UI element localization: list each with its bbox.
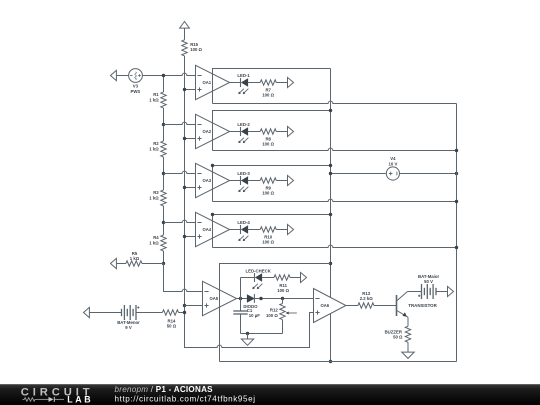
CircuitLab logo bbox=[21, 386, 94, 404]
ground buzzer bbox=[402, 352, 414, 358]
svg-text:R4: R4 bbox=[153, 235, 159, 240]
svg-text:100 Ω: 100 Ω bbox=[262, 191, 274, 196]
svg-text:OA4: OA4 bbox=[202, 227, 211, 232]
wire bus to OA3 non-inverting input bbox=[185, 187, 196, 189]
node terminal check (flag right) bbox=[301, 272, 307, 282]
junction bus OA4 plus bbox=[183, 235, 186, 238]
svg-text:TRANSISTOR: TRANSISTOR bbox=[408, 303, 437, 308]
wire box 3 outline bbox=[213, 166, 331, 202]
junction box3 top-left bbox=[211, 164, 214, 167]
wire LED-3 to R9 bbox=[248, 180, 260, 182]
wire box 4 outline bbox=[213, 215, 331, 248]
wire main bus from R15 down and jog to OA6 plus input bbox=[185, 56, 314, 348]
svg-text:1 kΩ: 1 kΩ bbox=[149, 195, 159, 200]
op-amp OA6 bbox=[314, 289, 346, 323]
junction chain R2-R3 bbox=[162, 172, 165, 175]
resistor BUZZER bbox=[385, 326, 411, 342]
wire OA3 output to LED-3 bbox=[230, 180, 241, 182]
svg-text:LED-CHECK: LED-CHECK bbox=[246, 269, 272, 274]
wire OA5 output bbox=[237, 298, 248, 300]
op-amp OA4 bbox=[196, 212, 230, 246]
svg-text:100 Ω: 100 Ω bbox=[277, 288, 289, 293]
node terminal R5 (flag left) bbox=[111, 258, 126, 268]
op-amp OA5 bbox=[203, 281, 237, 315]
svg-text:LED-4: LED-4 bbox=[237, 220, 250, 225]
wire secondary bus bbox=[330, 69, 332, 362]
svg-text:1 kΩ: 1 kΩ bbox=[130, 256, 140, 261]
wire bus2 to V4 bbox=[331, 173, 386, 175]
svg-text:OA6: OA6 bbox=[320, 303, 329, 308]
footer bar bbox=[0, 384, 540, 405]
wire OA4 output to LED-4 bbox=[230, 229, 241, 231]
svg-text:2.2 kΩ: 2.2 kΩ bbox=[360, 296, 374, 301]
svg-text:100 Ω: 100 Ω bbox=[262, 93, 274, 98]
voltage source V3 PWS bbox=[129, 69, 143, 94]
wire OA6 output to R13 bbox=[346, 305, 358, 307]
junction ground check bbox=[246, 332, 249, 335]
svg-text:OA1: OA1 bbox=[202, 80, 211, 85]
svg-text:100 Ω: 100 Ω bbox=[266, 313, 278, 318]
node terminal battery (flag left) bbox=[84, 307, 122, 317]
capacitor C1 bbox=[233, 299, 260, 334]
svg-text:R3: R3 bbox=[153, 190, 159, 195]
wire R8 to terminal bbox=[276, 131, 287, 133]
wire bus to OA1 non-inverting input bbox=[185, 89, 196, 91]
junction chain top bbox=[162, 74, 165, 77]
junction bus2 box3 top bbox=[329, 164, 332, 167]
junction bus2 check box top bbox=[329, 262, 332, 265]
LED LED-CHECK bbox=[246, 269, 272, 290]
wire OA5 output up to LED-CHECK bbox=[240, 278, 242, 299]
wire LED-4 to R10 bbox=[248, 229, 260, 231]
footer title text bbox=[115, 385, 256, 404]
wire R5 to chain bbox=[142, 263, 164, 265]
wire right bus bbox=[456, 104, 458, 362]
wire check box outline bbox=[220, 264, 331, 362]
svg-text:9 V: 9 V bbox=[125, 325, 132, 330]
junction after DIODO bbox=[259, 297, 262, 300]
svg-text:OA5: OA5 bbox=[209, 296, 218, 301]
wire box 1 bottom rail to right bus bbox=[213, 101, 457, 103]
wire to LED-CHECK bbox=[241, 277, 255, 279]
svg-text:brenopm / P1 - ACIONAS: brenopm / P1 - ACIONAS bbox=[115, 385, 214, 394]
wire divider to OA2 inverting input bbox=[164, 122, 196, 124]
resistor R9 bbox=[260, 178, 276, 196]
wire collector to battery bbox=[408, 291, 422, 293]
wire LED-CHECK to R11 bbox=[262, 277, 274, 279]
wire R13 to transistor base bbox=[374, 305, 397, 307]
wire box 4 bottom rail to right bus bbox=[213, 245, 457, 247]
svg-text:LED-1: LED-1 bbox=[237, 73, 250, 78]
wire box 2 outline bbox=[213, 111, 331, 151]
junction bus OA5 plus bbox=[183, 304, 186, 307]
node terminal box 3 (flag right) bbox=[288, 175, 294, 185]
wire R10 to terminal bbox=[276, 229, 287, 231]
wire OA1 output to LED-1 bbox=[230, 82, 241, 84]
wire LED-2 to R8 bbox=[248, 131, 260, 133]
svg-text:50 Ω: 50 Ω bbox=[393, 335, 403, 340]
resistor R15 bbox=[182, 40, 203, 56]
svg-text:50 V: 50 V bbox=[424, 279, 433, 284]
junction V4 right bbox=[455, 172, 458, 175]
svg-text:1 kΩ: 1 kΩ bbox=[149, 240, 159, 245]
wire LED-1 to R7 bbox=[248, 82, 260, 84]
svg-text:PWS: PWS bbox=[131, 89, 141, 94]
resistor R8 bbox=[260, 129, 276, 147]
wire R9 to terminal bbox=[276, 180, 287, 182]
svg-text:LAB: LAB bbox=[67, 395, 93, 405]
resistor R1 bbox=[149, 76, 166, 125]
junction bus2 box4 top bbox=[329, 213, 332, 216]
node terminal box 4 (flag right) bbox=[288, 224, 294, 234]
wire V4 to right bus bbox=[400, 173, 457, 175]
battery BAT-Maior bbox=[418, 274, 440, 299]
resistor R14 bbox=[162, 310, 178, 329]
node terminal BAT-Maior (flag right) bbox=[448, 286, 454, 296]
junction bus OA3 plus bbox=[183, 186, 186, 189]
wire bus to OA2 non-inverting input bbox=[185, 138, 196, 140]
wire box 2 bottom rail to right bus bbox=[213, 148, 457, 150]
junction V4 left bbox=[329, 172, 332, 175]
junction R12 top bbox=[281, 297, 284, 300]
svg-text:LED-3: LED-3 bbox=[237, 171, 250, 176]
resistor R12 bbox=[266, 299, 297, 334]
LED LED-2 bbox=[237, 122, 250, 143]
svg-text:OA3: OA3 bbox=[202, 178, 211, 183]
LED LED-1 bbox=[237, 73, 250, 94]
junction box4 top-left bbox=[211, 213, 214, 216]
wire DIODO to OA6 inverting input bbox=[254, 298, 313, 300]
op-amp OA1 bbox=[196, 65, 230, 99]
LED LED-4 bbox=[237, 220, 250, 241]
wire divider to OA3 inverting input bbox=[164, 171, 196, 173]
resistor R13 bbox=[358, 291, 374, 308]
svg-text:10 V: 10 V bbox=[388, 162, 397, 167]
wire bus to OA5 non-inverting input bbox=[185, 305, 203, 307]
svg-text:100 Ω: 100 Ω bbox=[262, 142, 274, 147]
battery BAT-Menor bbox=[117, 305, 140, 330]
resistor R5 bbox=[126, 251, 142, 266]
transistor TRANSISTOR bbox=[397, 292, 438, 317]
resistor R10 bbox=[260, 227, 276, 245]
junction chain R5 row bbox=[162, 262, 165, 265]
svg-text:100 Ω: 100 Ω bbox=[262, 240, 274, 245]
wire divider to OA4 inverting input bbox=[164, 220, 196, 222]
svg-text:OA2: OA2 bbox=[202, 129, 211, 134]
junction bus2 bottom bbox=[329, 360, 332, 363]
svg-text:R2: R2 bbox=[153, 141, 159, 146]
wire R11 to terminal bbox=[290, 277, 300, 279]
wire R7 to terminal bbox=[276, 82, 287, 84]
svg-text:http://circuitlab.com/ct74tfbn: http://circuitlab.com/ct74tfbnk95ej bbox=[115, 394, 256, 403]
resistor R7 bbox=[260, 80, 276, 98]
junction right bus box2 bbox=[455, 149, 458, 152]
wire box 3 bottom rail to right bus bbox=[213, 199, 457, 201]
wire C1/R12 bottom rail bbox=[241, 333, 283, 335]
junction right bus box3 bbox=[455, 200, 458, 203]
svg-text:1 kΩ: 1 kΩ bbox=[149, 97, 159, 102]
svg-text:LED-2: LED-2 bbox=[237, 122, 250, 127]
svg-text:R1: R1 bbox=[153, 92, 159, 97]
wire emitter to buzzer bbox=[407, 316, 408, 326]
resistor R4 bbox=[149, 223, 166, 264]
junction chain R1-R2 bbox=[162, 123, 165, 126]
LED LED-3 bbox=[237, 171, 250, 192]
resistor R11 bbox=[274, 275, 290, 293]
junction bus2 box2 top bbox=[329, 109, 332, 112]
junction bus OA2 plus bbox=[183, 137, 186, 140]
svg-text:1 kΩ: 1 kΩ bbox=[149, 146, 159, 151]
resistor R3 bbox=[149, 174, 166, 223]
wire R14 to bus bbox=[179, 312, 185, 314]
junction OA5 output node bbox=[239, 297, 242, 300]
op-amp OA2 bbox=[196, 114, 230, 148]
ground check circuit bbox=[241, 334, 253, 346]
wire buzzer to ground bbox=[407, 342, 409, 352]
wire V3 to OA1 inverting input bbox=[142, 73, 195, 75]
node terminal box 2 (flag right) bbox=[288, 126, 294, 136]
junction bus OA1 plus bbox=[183, 88, 186, 91]
diode DIODO bbox=[243, 294, 258, 309]
wire bus to OA4 non-inverting input bbox=[185, 236, 196, 238]
wire bottom rail bbox=[220, 361, 457, 363]
op-amp OA3 bbox=[196, 163, 230, 197]
junction chain R3-R4 bbox=[162, 221, 165, 224]
wire battery to terminal bbox=[436, 291, 448, 293]
node terminal V3 (flag left) bbox=[111, 70, 129, 80]
node terminal top (flag up) bbox=[180, 22, 190, 40]
svg-text:10 µF: 10 µF bbox=[249, 313, 260, 318]
junction bus R14 bbox=[183, 311, 186, 314]
junction right bus box4 bbox=[455, 246, 458, 249]
wire chain to OA5 inverting input bbox=[164, 264, 203, 292]
svg-text:100 Ω: 100 Ω bbox=[190, 47, 202, 52]
wire battery to R14 bbox=[136, 312, 162, 314]
svg-text:50 Ω: 50 Ω bbox=[167, 324, 177, 329]
voltage source V4 bbox=[386, 156, 399, 180]
wire box 1 outline bbox=[213, 69, 331, 104]
wire OA2 output to LED-2 bbox=[230, 131, 241, 133]
resistor R2 bbox=[149, 125, 166, 174]
svg-text:V4: V4 bbox=[390, 156, 396, 161]
node terminal box 1 (flag right) bbox=[288, 77, 294, 87]
